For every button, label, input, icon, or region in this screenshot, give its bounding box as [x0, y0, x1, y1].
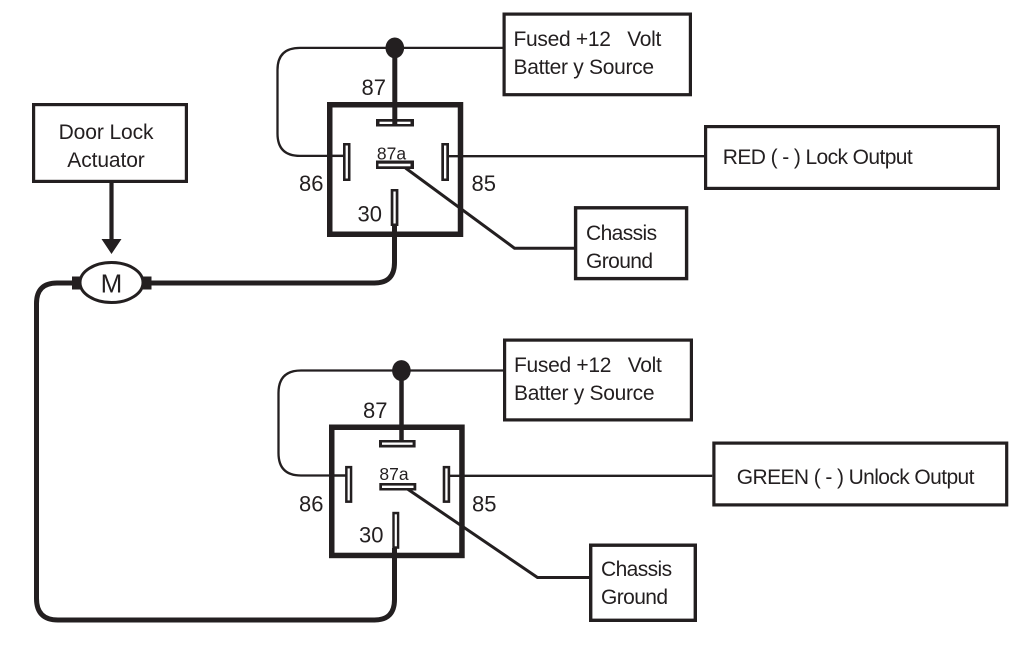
- relay1 pin 30 terminal: [391, 189, 399, 226]
- box chassis ground 1: [576, 208, 687, 279]
- wire relay2 pin 85 to GREEN output: [450, 475, 713, 477]
- svg-text:Batter y Source: Batter y Source: [514, 56, 654, 79]
- junction dot 1: [386, 38, 405, 59]
- wire battery feed 2 (to fused source, with loop to relay2 pin 86): [279, 371, 504, 476]
- svg-text:Ground: Ground: [586, 250, 652, 273]
- arrow from Door Lock Actuator to motor M: [102, 183, 122, 254]
- box GREEN unlock output: [714, 443, 1007, 505]
- svg-text:86: 86: [299, 492, 323, 517]
- relay2 pin 86 terminal: [345, 466, 352, 503]
- svg-text:GREEN ( - ) Unlock Output: GREEN ( - ) Unlock Output: [737, 466, 975, 489]
- wire battery feed 1 (to fused source, with loop to relay1 pin 86): [278, 48, 503, 156]
- box RED lock output: [706, 127, 999, 189]
- svg-text:30: 30: [359, 522, 383, 547]
- svg-text:87a: 87a: [377, 143, 406, 163]
- motor terminal right: [143, 277, 152, 290]
- relay1 pin 87 terminal: [376, 119, 414, 127]
- junction dot 2: [392, 360, 411, 381]
- relay1 pin 86 stub: [332, 155, 344, 157]
- svg-text:RED ( - ) Lock Output: RED ( - ) Lock Output: [723, 146, 913, 169]
- svg-text:85: 85: [472, 171, 496, 196]
- box Door Lock Actuator: [34, 105, 187, 182]
- relay 1 body: [330, 105, 461, 235]
- svg-text:85: 85: [472, 492, 496, 517]
- relay2 pin 86 stub: [334, 474, 346, 476]
- motor M: [80, 263, 143, 303]
- wire relay2 87a to chassis ground 2: [405, 487, 590, 578]
- relay1 pin 87a terminal: [376, 161, 414, 170]
- relay2 pin 87 terminal: [379, 440, 416, 448]
- relay1 pin 85 terminal: [441, 143, 449, 181]
- relay1 pin 86 terminal: [343, 143, 351, 181]
- svg-text:Fused +12 Volt: Fused +12 Volt: [514, 28, 662, 51]
- svg-text:30: 30: [358, 202, 382, 227]
- svg-text:87: 87: [363, 398, 387, 423]
- svg-text:M: M: [101, 269, 123, 299]
- box fused +12 volt battery source 1: [504, 14, 690, 95]
- svg-text:Fused +12 Volt: Fused +12 Volt: [514, 354, 662, 377]
- svg-text:Batter y Source: Batter y Source: [514, 382, 654, 405]
- svg-text:Chassis: Chassis: [586, 222, 657, 245]
- svg-text:87a: 87a: [379, 464, 408, 484]
- box fused +12 volt battery source 2: [505, 340, 692, 420]
- svg-text:Door Lock: Door Lock: [59, 121, 154, 144]
- motor terminal left: [72, 277, 81, 290]
- relay2 pin 85 terminal: [443, 466, 451, 503]
- svg-text:86: 86: [299, 171, 323, 196]
- wire junction2 down to relay2 pin 87: [399, 371, 404, 441]
- relay 2 body: [332, 427, 462, 555]
- wire relay1 87a to chassis ground 1: [406, 168, 575, 248]
- relay2 pin 87a terminal: [379, 483, 416, 491]
- wire motor to relay1 pin 30: [151, 221, 395, 283]
- svg-text:Actuator: Actuator: [67, 149, 145, 172]
- wire motor left loop to relay2 pin 30: [37, 283, 395, 620]
- box chassis ground 2: [591, 545, 696, 620]
- svg-text:Chassis: Chassis: [601, 558, 672, 581]
- svg-text:Ground: Ground: [601, 586, 667, 609]
- wire junction1 down to relay1 pin 87: [392, 48, 397, 126]
- relay2 pin 30 terminal: [392, 512, 399, 549]
- svg-text:87: 87: [362, 75, 386, 100]
- wire relay1 pin 85 to RED output: [448, 155, 704, 157]
